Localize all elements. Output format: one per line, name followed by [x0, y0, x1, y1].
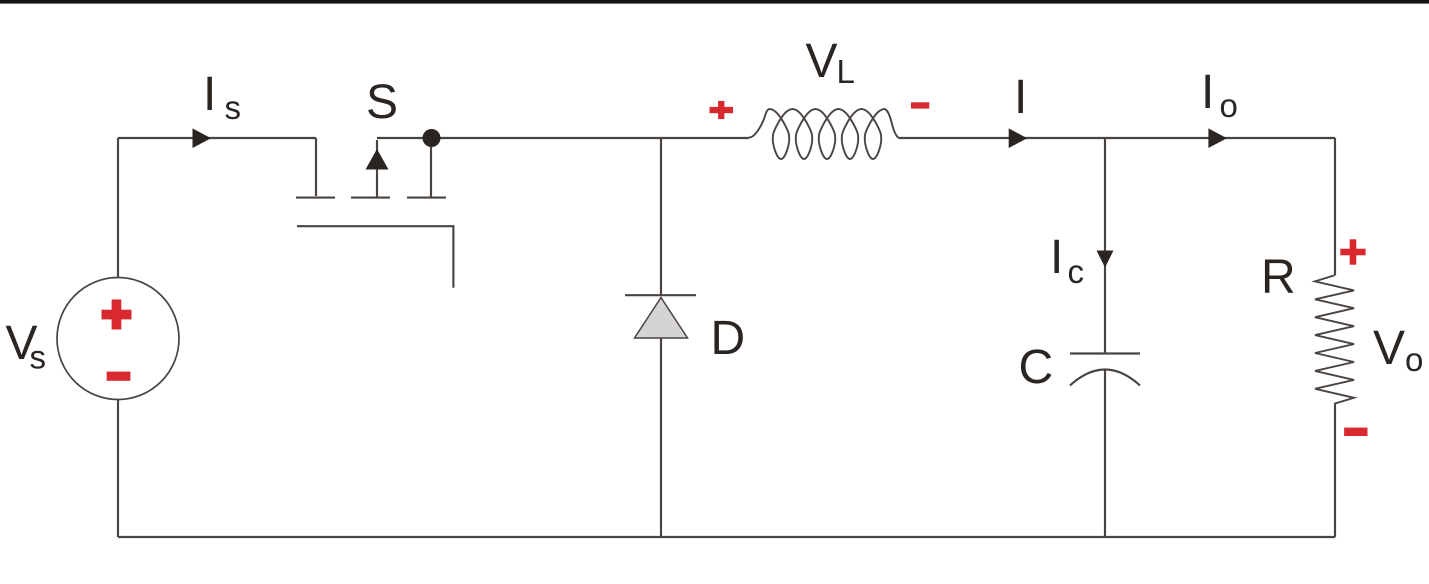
svg-text:I: I: [1050, 231, 1063, 284]
svg-text:D: D: [711, 312, 746, 365]
svg-text:s: s: [225, 89, 242, 126]
svg-text:L: L: [837, 53, 855, 90]
svg-text:I: I: [1014, 71, 1027, 124]
svg-text:o: o: [1405, 341, 1423, 378]
svg-text:o: o: [1220, 87, 1238, 124]
svg-text:c: c: [1068, 253, 1085, 290]
svg-text:V: V: [806, 35, 838, 88]
svg-text:C: C: [1019, 341, 1054, 394]
svg-text:R: R: [1261, 251, 1296, 304]
svg-text:V: V: [1373, 322, 1405, 375]
svg-text:I: I: [203, 68, 216, 121]
svg-text:I: I: [1201, 66, 1214, 119]
svg-text:s: s: [30, 339, 47, 376]
svg-text:S: S: [366, 76, 398, 129]
